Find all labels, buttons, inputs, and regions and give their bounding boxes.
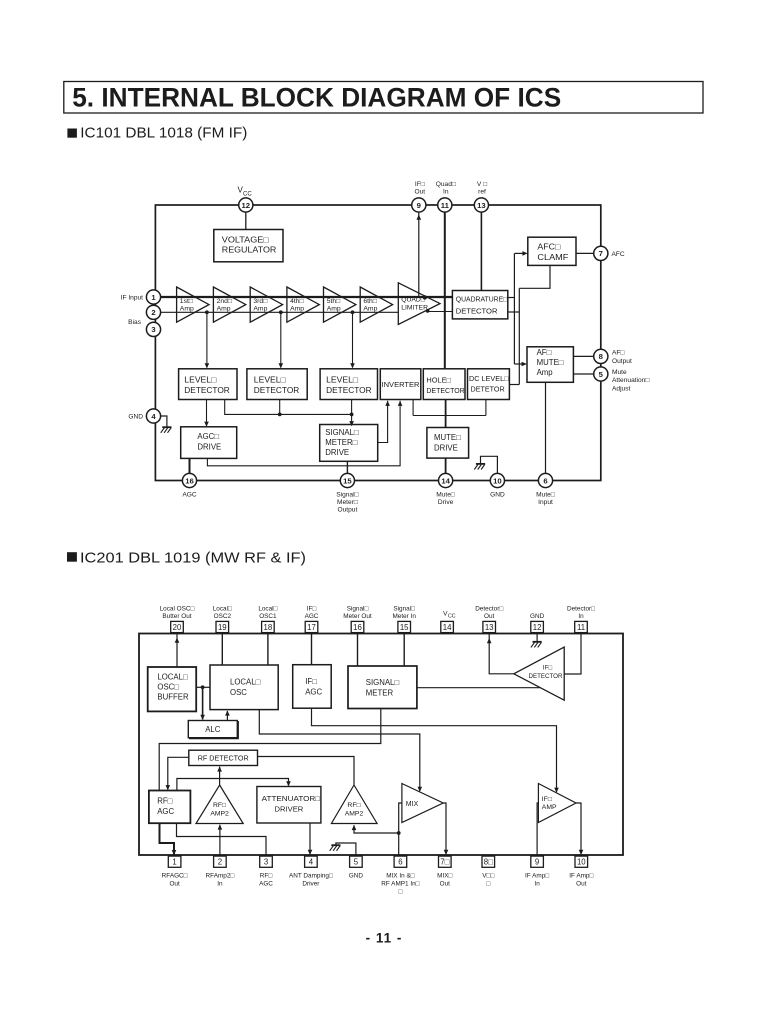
svg-text:Meter□: Meter□ — [337, 499, 358, 506]
wire pin18 to local osc — [267, 634, 269, 666]
svg-text:MUTE□: MUTE□ — [537, 358, 564, 367]
wire pin11 quad in to hole detector — [444, 212, 446, 369]
agc drive block — [181, 427, 237, 459]
wire attenuator driver to pin4 — [309, 823, 311, 854]
svg-text:19: 19 — [218, 623, 227, 632]
svg-text:RF□: RF□ — [213, 802, 226, 809]
svg-text:METER: METER — [366, 688, 394, 697]
svg-text:- 11 -: - 11 - — [366, 931, 403, 946]
wire pin6 to mix — [399, 803, 402, 856]
voltage regulator block — [214, 230, 283, 262]
svg-text:Driver: Driver — [302, 880, 320, 887]
pin 4 (IC201 bottom) — [305, 856, 318, 867]
svg-text:Meter In: Meter In — [392, 613, 416, 620]
svg-text:DRIVER: DRIVER — [275, 804, 304, 813]
wire rf detector to rf amp2 2 tip — [258, 757, 355, 786]
svg-text:AFC□: AFC□ — [537, 242, 560, 251]
svg-text:Out: Out — [440, 880, 451, 887]
svg-text:QUADRATURE□: QUADRATURE□ — [456, 295, 508, 304]
svg-text:IF Amp□: IF Amp□ — [569, 873, 593, 880]
wire rf detector to rf agc — [168, 757, 189, 789]
svg-text:Out: Out — [484, 613, 495, 620]
pin 11 (IC201 top) — [575, 621, 588, 632]
wire rf agc to pin1 out — [160, 823, 175, 854]
pin 2 (IC201 bottom) — [214, 856, 227, 867]
level detector 2 block — [247, 369, 307, 400]
alc block — [188, 721, 237, 738]
svg-text:5. INTERNAL BLOCK DIAGRAM OF I: 5. INTERNAL BLOCK DIAGRAM OF ICS — [72, 82, 561, 112]
pin 13 (IC201 top) — [483, 621, 496, 632]
svg-text:Local□: Local□ — [258, 606, 277, 613]
svg-text:□: □ — [398, 888, 402, 895]
wire af mute amp to pin6 — [545, 382, 547, 474]
ground at pin10 — [481, 456, 498, 474]
svg-text:15: 15 — [400, 623, 409, 632]
level detector summing bus — [225, 400, 352, 415]
svg-text:OSC2: OSC2 — [214, 613, 232, 620]
attenuator driver block — [257, 787, 321, 824]
pin 15 — [340, 473, 354, 487]
svg-text:Signal□: Signal□ — [347, 606, 369, 613]
amplifier A3 (3rd□Amp) — [250, 287, 282, 322]
wire pin16b to signal meter — [357, 634, 359, 667]
svg-text:In: In — [443, 188, 449, 195]
quadrature detector block — [452, 291, 507, 319]
svg-text:DRIVE: DRIVE — [434, 443, 458, 452]
svg-text:Local□: Local□ — [213, 606, 232, 613]
inverter block — [380, 369, 421, 400]
svg-text:GND: GND — [490, 491, 505, 498]
afc clamf block — [528, 237, 576, 265]
svg-text:12: 12 — [533, 623, 542, 632]
svg-text:1st□: 1st□ — [180, 298, 193, 305]
pin 14 — [439, 473, 453, 487]
svg-text:MIX In &□: MIX In &□ — [386, 873, 415, 880]
svg-text:9: 9 — [417, 201, 421, 210]
pin 16 (IC201 top) — [351, 621, 364, 632]
svg-text:20: 20 — [173, 623, 182, 632]
svg-text:Amp: Amp — [180, 306, 194, 313]
svg-text:DETECTOR: DETECTOR — [529, 673, 563, 680]
svg-text:4: 4 — [151, 412, 156, 421]
svg-text:DETECTOR: DETECTOR — [326, 386, 372, 395]
mix amplifier — [402, 784, 443, 823]
pin 7 (IC201 bottom) — [439, 856, 452, 867]
svg-text:CC: CC — [243, 192, 252, 198]
svg-text:DETETOR: DETETOR — [471, 385, 505, 394]
local osc block — [210, 665, 278, 710]
svg-text:SIGNAL□: SIGNAL□ — [366, 678, 400, 687]
svg-text:IF□: IF□ — [542, 796, 552, 803]
svg-text:4: 4 — [309, 858, 314, 867]
svg-text:11: 11 — [441, 201, 450, 210]
junction dot on limiter output — [423, 295, 427, 299]
svg-text:IF Amp□: IF Amp□ — [525, 873, 549, 880]
svg-text:5: 5 — [354, 858, 359, 867]
svg-text:MIX: MIX — [406, 801, 419, 808]
wire mix to pin7 — [443, 803, 446, 854]
svg-text:□: □ — [486, 880, 490, 887]
amplifier A4 (4th□Amp) — [287, 287, 319, 322]
svg-text:13: 13 — [477, 201, 486, 210]
level detector 3 block — [320, 369, 377, 400]
svg-text:AMP: AMP — [542, 804, 557, 811]
svg-text:2nd□: 2nd□ — [217, 298, 232, 305]
svg-text:GND: GND — [349, 873, 364, 880]
wire if agc to if amp — [312, 708, 557, 792]
svg-text:IF Input: IF Input — [121, 295, 144, 302]
pin 2 — [146, 305, 160, 319]
svg-text:RF□: RF□ — [260, 873, 273, 880]
svg-text:Out: Out — [169, 880, 180, 887]
svg-text:IF□: IF□ — [307, 606, 317, 613]
svg-text:LIMITER: LIMITER — [401, 304, 428, 311]
amplifier A1 (1st□Amp) — [177, 287, 209, 322]
svg-text:OSC1: OSC1 — [259, 613, 277, 620]
svg-text:Bias: Bias — [128, 319, 142, 326]
svg-text:Mute: Mute — [612, 369, 627, 376]
svg-text:AGC: AGC — [157, 807, 174, 816]
svg-text:4th□: 4th□ — [290, 298, 304, 305]
wire rf agc to pin3 — [177, 823, 267, 856]
rf amp2 amplifier 2 — [331, 785, 377, 824]
svg-text:ATTENUATOR□: ATTENUATOR□ — [262, 794, 321, 803]
svg-text:AGC: AGC — [305, 613, 319, 620]
pin 10 — [490, 473, 504, 487]
svg-text:AF□: AF□ — [537, 348, 552, 357]
svg-text:5th□: 5th□ — [327, 298, 341, 305]
svg-text:16: 16 — [185, 476, 194, 485]
pin 3 — [146, 322, 160, 336]
svg-text:Quad□: Quad□ — [436, 181, 456, 188]
svg-text:RF□: RF□ — [347, 802, 360, 809]
wire af mute amp to pin5 — [573, 373, 594, 375]
svg-text:Amp: Amp — [217, 306, 231, 313]
svg-text:Butter Out: Butter Out — [162, 613, 191, 620]
svg-text:10: 10 — [493, 476, 502, 485]
svg-text:MIX□: MIX□ — [437, 873, 452, 880]
svg-text:CLAMF: CLAMF — [537, 253, 568, 262]
ground at pin5b — [336, 843, 356, 856]
pin 17 (IC201 top) — [305, 621, 318, 632]
pin 1 — [146, 290, 160, 304]
svg-text:INVERTER: INVERTER — [382, 380, 421, 389]
svg-text:RF DETECTOR: RF DETECTOR — [198, 753, 249, 762]
if agc block — [293, 665, 332, 709]
amplifier A2 (2nd□Amp) — [213, 287, 245, 322]
IC201 outer border — [139, 634, 623, 856]
pin 12 — [239, 198, 253, 212]
svg-text:7: 7 — [599, 249, 603, 258]
svg-text:12: 12 — [242, 201, 251, 210]
svg-text:DRIVE: DRIVE — [197, 443, 221, 452]
svg-text:MUTE□: MUTE□ — [434, 433, 461, 442]
wire pin9 to if amp — [537, 803, 538, 856]
svg-text:14: 14 — [441, 476, 450, 485]
svg-text:VOLTAGE□: VOLTAGE□ — [222, 235, 269, 244]
svg-text:GND: GND — [530, 613, 545, 620]
pin 7 — [594, 246, 608, 260]
svg-text:REGULATOR: REGULATOR — [222, 246, 277, 255]
wire agc drive feedback to inverter — [207, 401, 400, 466]
pin 8 (IC201 bottom) — [482, 856, 495, 867]
wire agc drive to pin16 — [189, 458, 191, 473]
wire signal meter to rf agc — [159, 709, 381, 791]
svg-text:2: 2 — [151, 308, 155, 317]
wire mute drive to pin14 — [445, 458, 447, 474]
svg-text:HOLE□: HOLE□ — [426, 375, 451, 384]
svg-text:DETECTOR: DETECTOR — [426, 386, 464, 395]
svg-text:5: 5 — [599, 370, 604, 379]
svg-text:DC LEVEL□: DC LEVEL□ — [469, 374, 509, 383]
svg-text:6: 6 — [398, 858, 402, 867]
signal meter drive block — [320, 425, 378, 462]
pin 14 (IC201 top) — [441, 621, 454, 632]
pin 6 — [538, 473, 552, 487]
wire quadrature det out2 to dc level detetor — [508, 311, 520, 313]
wire af mute amp to pin8 — [573, 355, 594, 357]
svg-text:15: 15 — [343, 476, 352, 485]
svg-text:17: 17 — [307, 623, 316, 632]
svg-text:ref: ref — [478, 188, 486, 195]
svg-text:Out: Out — [414, 188, 425, 195]
svg-text:AF□: AF□ — [612, 350, 624, 357]
svg-text:LEVEL□: LEVEL□ — [326, 375, 358, 384]
svg-text:Signal□: Signal□ — [336, 491, 358, 498]
wire hole detector to mute drive — [445, 400, 447, 428]
svg-text:In: In — [578, 613, 584, 620]
svg-text:AFC: AFC — [612, 251, 625, 258]
wire rf agc to attenuator driver — [177, 779, 289, 791]
svg-text:8: 8 — [599, 352, 604, 361]
svg-text:IF□: IF□ — [543, 665, 552, 672]
svg-text:IC201 DBL 1019 (MW RF & IF): IC201 DBL 1019 (MW RF & IF) — [80, 549, 306, 566]
dc level detetor block — [468, 369, 510, 400]
svg-text:CC: CC — [448, 614, 456, 620]
svg-text:3: 3 — [264, 858, 268, 867]
wire pin13b from if detector — [489, 634, 514, 674]
wire pin6 junction to rf amp2 2 — [354, 825, 399, 833]
svg-text:SIGNAL□: SIGNAL□ — [325, 428, 359, 437]
svg-text:V □: V □ — [477, 181, 487, 188]
svg-text:In: In — [534, 880, 540, 887]
quad limiter amplifier — [398, 283, 440, 325]
wire alc to local osc — [226, 711, 228, 721]
wire pin20 from buffer — [176, 634, 178, 668]
wire pin11b to if detector — [564, 634, 581, 675]
svg-text:18: 18 — [264, 623, 273, 632]
pin 10 (IC201 bottom) — [575, 856, 588, 867]
section header IC101 — [67, 129, 77, 138]
pin 19 (IC201 top) — [216, 621, 229, 632]
wire signal meter drive to inverter — [378, 401, 388, 443]
svg-text:Adjust: Adjust — [612, 385, 630, 392]
junction dot on limiter lower edge — [426, 309, 430, 313]
pin 9 (IC201 bottom) — [531, 856, 544, 867]
svg-text:AGC: AGC — [259, 880, 273, 887]
svg-text:LOCAL□: LOCAL□ — [230, 677, 261, 686]
svg-text:3rd□: 3rd□ — [253, 298, 267, 305]
svg-text:OSC□: OSC□ — [157, 683, 179, 692]
svg-text:IC101 DBL 1018 (FM IF): IC101 DBL 1018 (FM IF) — [80, 125, 247, 142]
svg-text:AMP2: AMP2 — [210, 810, 229, 817]
svg-text:Amp: Amp — [363, 306, 377, 313]
svg-text:Out: Out — [576, 880, 587, 887]
svg-text:IF□: IF□ — [415, 181, 425, 188]
rf agc block — [149, 791, 191, 824]
wire junction to alc — [202, 687, 204, 719]
mute drive block — [427, 428, 469, 459]
svg-text:Local OSC□: Local OSC□ — [160, 606, 195, 613]
pin 5 — [594, 367, 608, 381]
wire inverter bottom bus — [412, 400, 414, 416]
svg-text:Drive: Drive — [438, 499, 454, 506]
wire if amp to pin10 — [576, 803, 581, 854]
wire afc clamf bottom — [519, 265, 550, 288]
wire pin15b to signal meter — [403, 634, 405, 667]
svg-text:Amp: Amp — [253, 306, 267, 313]
pin 20 (IC201 top) — [171, 621, 184, 632]
tap 3 to level detector 3 — [352, 312, 354, 367]
hole detector block — [423, 369, 465, 400]
svg-text:ALC: ALC — [205, 725, 221, 734]
wire pin17 to if agc — [311, 634, 313, 665]
rf amp2 amplifier 1 — [196, 785, 243, 824]
pin 1 (IC201 bottom) — [168, 856, 181, 867]
svg-text:DETECTOR: DETECTOR — [184, 386, 230, 395]
svg-text:In: In — [217, 880, 223, 887]
af mute amp block — [527, 347, 573, 383]
IC101 outer border — [155, 205, 600, 481]
wire signal meter drive to pin15 — [346, 461, 348, 474]
svg-text:GND: GND — [128, 414, 143, 421]
svg-text:1: 1 — [172, 858, 176, 867]
svg-text:AMP2: AMP2 — [345, 810, 364, 817]
svg-text:6th□: 6th□ — [363, 298, 377, 305]
if detector amplifier — [514, 647, 564, 700]
svg-text:Meter Out: Meter Out — [343, 613, 372, 620]
svg-text:6: 6 — [543, 476, 547, 485]
wire level det1 to agc drive — [206, 400, 208, 426]
svg-text:LEVEL□: LEVEL□ — [184, 375, 216, 384]
svg-text:13: 13 — [485, 623, 494, 632]
bias line from pin2 — [161, 311, 399, 313]
svg-text:RFAGC□: RFAGC□ — [162, 873, 188, 880]
svg-text:DRIVE: DRIVE — [325, 448, 349, 457]
pin 9 — [412, 198, 426, 212]
svg-text:3: 3 — [151, 325, 155, 334]
svg-text:8□: 8□ — [484, 858, 493, 867]
svg-text:Output: Output — [612, 358, 632, 365]
svg-text:Amp: Amp — [537, 368, 554, 377]
svg-text:AGC: AGC — [305, 687, 322, 696]
svg-text:Signal□: Signal□ — [393, 606, 415, 613]
svg-text:LEVEL□: LEVEL□ — [254, 375, 286, 384]
rf detector block — [189, 750, 258, 765]
svg-text:RF□: RF□ — [157, 796, 172, 805]
svg-text:ANT Damping□: ANT Damping□ — [289, 873, 333, 880]
pin 4 — [146, 409, 160, 423]
svg-text:RFAmp2□: RFAmp2□ — [206, 873, 235, 880]
tap 2 to level detector 2 — [280, 312, 282, 367]
svg-text:OSC: OSC — [230, 688, 247, 697]
svg-text:V□□: V□□ — [482, 873, 494, 880]
wire signal meter to if detector — [417, 687, 540, 689]
svg-text:Output: Output — [338, 506, 358, 513]
svg-text:LOCAL□: LOCAL□ — [157, 673, 188, 682]
svg-text:Mute□: Mute□ — [436, 491, 455, 498]
pin 18 (IC201 top) — [262, 621, 275, 632]
svg-text:AGC: AGC — [182, 491, 197, 498]
main signal line pins1 to quadrature detector — [161, 296, 453, 298]
svg-text:METER□: METER□ — [325, 438, 357, 447]
svg-text:AGC□: AGC□ — [197, 432, 219, 441]
svg-text:DETECTOR: DETECTOR — [456, 306, 498, 315]
pin 12 (IC201 top) — [531, 621, 544, 632]
svg-text:2: 2 — [218, 858, 222, 867]
svg-text:10: 10 — [577, 858, 586, 867]
amplifier A6 (6th□Amp) — [360, 287, 392, 322]
limiter lower output line — [427, 311, 452, 313]
pin 6 (IC201 bottom) — [394, 856, 407, 867]
svg-text:14: 14 — [443, 623, 452, 632]
pin 8 — [594, 349, 608, 363]
wire buffer to local osc — [196, 686, 210, 688]
local osc buffer block — [148, 667, 197, 711]
svg-text:DETECTOR: DETECTOR — [254, 386, 300, 395]
title box — [64, 82, 703, 114]
svg-text:Input: Input — [538, 499, 553, 506]
wire quadrature det out to afc clamf and af mute amp — [508, 297, 515, 299]
svg-text:Detector□: Detector□ — [475, 606, 503, 613]
if amp amplifier — [538, 784, 576, 823]
svg-text:16: 16 — [353, 623, 362, 632]
section header IC201 — [67, 552, 77, 562]
pin 13 — [474, 198, 488, 212]
svg-text:Mute□: Mute□ — [536, 491, 555, 498]
wire pin19 to local osc — [221, 634, 223, 666]
amplifier A5 (5th□Amp) — [324, 287, 356, 322]
svg-text:Amp: Amp — [290, 306, 304, 313]
wire rf amp1 tip to rf detector — [219, 767, 221, 786]
svg-text:Amp: Amp — [327, 306, 341, 313]
pin 16 — [182, 473, 196, 487]
pin 11 — [438, 198, 452, 212]
svg-text:7□: 7□ — [440, 858, 449, 867]
pin 5 (IC201 bottom) — [350, 856, 363, 867]
wire local osc to mix — [259, 710, 420, 791]
svg-text:Detector□: Detector□ — [567, 606, 595, 613]
signal meter block — [348, 666, 417, 709]
ground at pin12b — [536, 634, 538, 642]
level detector 1 block — [179, 369, 237, 400]
tap 1 to level detector 1 — [206, 312, 208, 367]
svg-text:Attenuation□: Attenuation□ — [612, 377, 649, 384]
pin 15 (IC201 top) — [398, 621, 411, 632]
svg-text:11: 11 — [577, 623, 585, 632]
wire pin12 to voltage regulator — [245, 212, 247, 230]
svg-text:BUFFER: BUFFER — [157, 693, 189, 702]
wire pin13 vref to quadrature detector — [480, 212, 482, 291]
svg-text:IF□: IF□ — [305, 677, 317, 686]
svg-text:1: 1 — [151, 293, 156, 302]
ground at pin4 — [160, 416, 167, 427]
wire afc clamf to pin7 — [576, 252, 594, 254]
pin 3 (IC201 bottom) — [260, 856, 273, 867]
svg-text:9: 9 — [535, 858, 539, 867]
wire pin2 to rf amp2 1 — [219, 825, 221, 856]
wire pin9 IF out — [418, 212, 420, 297]
